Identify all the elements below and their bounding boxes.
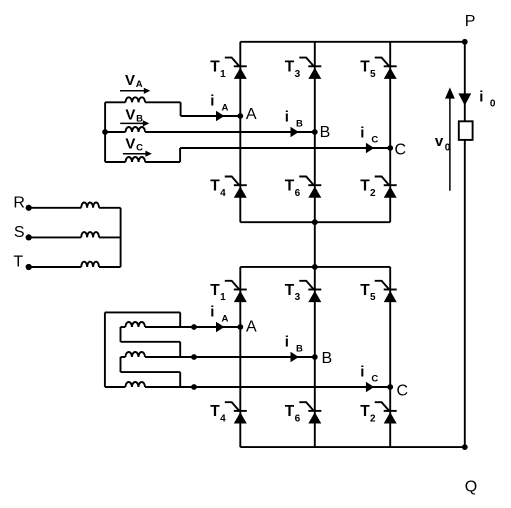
winding T (primary) — [29, 262, 121, 267]
svg-text:V: V — [125, 72, 135, 89]
label i_C (lower bridge) — [360, 364, 378, 385]
label V_A with arrow — [120, 72, 150, 94]
wire: phase A line to lower bridge — [145, 326, 240, 328]
svg-text:3: 3 — [295, 292, 301, 303]
svg-text:T: T — [360, 178, 370, 195]
svg-text:C: C — [371, 135, 378, 146]
svg-text:0: 0 — [490, 98, 496, 109]
svg-text:A: A — [246, 318, 257, 335]
svg-text:T: T — [210, 59, 220, 76]
label i_B (top bridge) — [285, 109, 303, 130]
wire: lower bridge negative rail to node Q rail — [240, 446, 464, 448]
wire: lower bridge phase-C leg — [389, 267, 391, 447]
label T2 (lower) — [360, 403, 376, 424]
label i_B (lower bridge) — [285, 334, 303, 355]
thyristor T3 (lower bridge) — [299, 281, 321, 302]
svg-text:i: i — [210, 93, 214, 110]
svg-text:i: i — [360, 364, 364, 381]
winding 3 (delta, phase C) — [105, 382, 145, 387]
node A (lower bridge) junction dot — [237, 324, 243, 330]
current arrow i_C (lower bridge) — [366, 382, 374, 392]
svg-text:5: 5 — [370, 292, 376, 303]
winding S (primary) — [29, 232, 121, 237]
wire: delta link down to phase C winding — [179, 372, 181, 387]
svg-text:B: B — [322, 350, 333, 367]
thyristor T1 (top bridge) — [225, 58, 247, 79]
node A (top bridge) junction dot — [237, 113, 243, 119]
junction dot: top bridge negative rail / series link — [312, 219, 318, 225]
voltage arrow v_0 (up) — [445, 87, 455, 190]
current arrow i_C (top bridge) — [366, 143, 374, 153]
svg-text:P: P — [465, 13, 476, 30]
current arrow i_0 (down) — [458, 93, 471, 105]
node P junction dot — [462, 39, 468, 45]
svg-text:i: i — [210, 304, 214, 321]
label i_A (top bridge) — [210, 93, 228, 114]
wire: phase B line to top bridge — [145, 131, 315, 133]
svg-text:B: B — [320, 124, 331, 141]
wire: primary star point bus — [120, 208, 122, 267]
thyristor T3 (top bridge) — [299, 58, 321, 79]
svg-text:4: 4 — [220, 414, 226, 425]
svg-text:0: 0 — [445, 143, 451, 154]
svg-text:i: i — [285, 334, 289, 351]
wire: phase C line to top bridge — [180, 147, 390, 149]
label i_C (top bridge) — [360, 125, 378, 146]
wire: phase C line to lower bridge — [145, 386, 390, 388]
junction dot: negative rail at load rail — [462, 444, 468, 450]
terminal dot S — [26, 234, 32, 240]
svg-text:3: 3 — [295, 69, 301, 80]
svg-text:6: 6 — [295, 188, 301, 199]
svg-text:v: v — [435, 133, 444, 150]
svg-text:Q: Q — [465, 479, 477, 496]
svg-text:A: A — [246, 106, 257, 123]
label v_0 — [435, 133, 451, 154]
wye neutral junction dot — [102, 129, 108, 135]
svg-text:B: B — [296, 119, 303, 130]
label V_B with arrow — [120, 106, 149, 126]
svg-text:C: C — [395, 142, 407, 159]
svg-text:T: T — [210, 282, 220, 299]
svg-text:T: T — [360, 403, 370, 420]
label T5 — [360, 59, 376, 80]
svg-text:T: T — [285, 282, 295, 299]
svg-text:C: C — [371, 374, 378, 385]
junction dot on phase C (delta output) — [191, 384, 197, 390]
svg-text:C: C — [136, 143, 143, 154]
junction dot on phase A (delta output) — [191, 324, 197, 330]
wire: lower bridge positive rail — [240, 266, 390, 268]
thyristor T6 (lower bridge) — [299, 402, 321, 423]
wire: series link between bridges — [314, 222, 316, 267]
junction dot: lower bridge positive rail / series link — [312, 264, 318, 270]
svg-text:4: 4 — [220, 188, 226, 199]
svg-text:S: S — [14, 224, 25, 241]
svg-text:V: V — [125, 135, 135, 152]
thyristor T5 (lower bridge) — [375, 281, 397, 302]
label V_C with arrow — [123, 135, 152, 156]
thyristor T4 (lower bridge) — [225, 402, 247, 423]
current arrow i_A (lower bridge) — [216, 322, 224, 332]
svg-text:6: 6 — [295, 414, 301, 425]
wire: phase A line to top bridge — [181, 115, 241, 117]
svg-text:R: R — [13, 194, 25, 211]
svg-text:i: i — [285, 109, 289, 126]
svg-text:T: T — [360, 59, 370, 76]
wire: wye secondary neutral bus — [104, 102, 106, 162]
svg-text:1: 1 — [220, 69, 226, 80]
svg-text:T: T — [285, 403, 295, 420]
terminal dot T — [26, 264, 32, 270]
current arrow i_B (top bridge) — [291, 127, 299, 137]
wire: top bridge negative rail — [240, 221, 390, 223]
wire: winding 1 return run — [121, 341, 181, 343]
winding V_B (wye secondary) — [105, 127, 145, 132]
wire: top bridge phase-B leg — [314, 42, 316, 222]
svg-text:A: A — [136, 79, 143, 90]
label T6 (lower) — [285, 403, 301, 424]
wire: top bridge phase-A leg — [239, 42, 241, 222]
label T5 (lower) — [360, 282, 376, 303]
svg-text:A: A — [222, 314, 229, 325]
current arrow i_B (lower bridge) — [291, 352, 299, 362]
winding V_C (wye secondary) — [105, 157, 180, 162]
node B (top bridge) junction dot — [312, 129, 318, 135]
node C (top bridge) junction dot — [387, 145, 393, 151]
wire: top bridge positive rail to node P — [240, 41, 464, 43]
wire: phase B line to lower bridge — [145, 356, 315, 358]
label i_0 — [479, 88, 496, 109]
thyristor T5 (top bridge) — [375, 58, 397, 79]
svg-text:T: T — [210, 403, 220, 420]
junction dot on phase B (delta output) — [191, 354, 197, 360]
thyristor T2 (lower bridge) — [375, 402, 397, 423]
svg-text:2: 2 — [370, 414, 376, 425]
label T6 — [285, 178, 301, 199]
wire: delta link top-right down to phase A winding — [179, 312, 181, 327]
svg-text:2: 2 — [370, 188, 376, 199]
svg-text:T: T — [210, 178, 220, 195]
label T1 — [210, 59, 226, 80]
svg-text:T: T — [285, 178, 295, 195]
wire: delta outer top side — [105, 311, 180, 313]
wire: delta link down to phase B winding — [179, 342, 181, 357]
thyristor T2 (top bridge) — [375, 177, 397, 198]
label T4 — [210, 178, 226, 199]
winding V_A (wye secondary) — [105, 97, 181, 102]
wire: winding 2 left end down — [120, 357, 122, 372]
wire: winding 1 left end down — [120, 327, 122, 342]
svg-text:C: C — [397, 382, 409, 399]
label T3 — [285, 59, 301, 80]
node C (lower bridge) junction dot — [387, 384, 393, 390]
svg-text:T: T — [13, 254, 23, 271]
label i_A (lower bridge) — [210, 304, 228, 325]
svg-text:i: i — [360, 125, 364, 142]
node B (lower bridge) junction dot — [312, 354, 318, 360]
winding 1 (delta, phase A) — [121, 322, 145, 327]
wire: top bridge phase-C leg — [389, 42, 391, 222]
wire: lower bridge phase-A leg — [239, 267, 241, 447]
thyristor T4 (top bridge) — [225, 177, 247, 198]
svg-text:i: i — [479, 88, 483, 105]
svg-text:T: T — [360, 282, 370, 299]
svg-text:A: A — [222, 103, 229, 114]
wire: V_A output step down to phase A — [180, 102, 182, 116]
wire: delta outer left side — [104, 312, 106, 387]
resistor load — [459, 121, 473, 140]
current arrow i_A (top bridge) — [216, 111, 224, 121]
label T3 (lower) — [285, 282, 301, 303]
thyristor T1 (lower bridge) — [225, 281, 247, 302]
thyristor T6 (top bridge) — [299, 177, 321, 198]
wire: lower bridge phase-B leg — [314, 267, 316, 447]
terminal dot R — [26, 205, 32, 211]
svg-text:V: V — [125, 106, 135, 123]
svg-text:5: 5 — [370, 69, 376, 80]
label T2 — [360, 178, 376, 199]
wire: V_C output step up to phase C — [179, 148, 181, 162]
wire: load rail P to Q — [464, 42, 466, 447]
winding R (primary) — [29, 202, 121, 207]
svg-text:T: T — [285, 59, 295, 76]
winding 2 (delta, phase B) — [121, 352, 145, 357]
svg-text:B: B — [296, 344, 303, 355]
svg-text:1: 1 — [220, 292, 226, 303]
label T4 (lower) — [210, 403, 226, 424]
wire: winding 2 return run — [121, 371, 181, 373]
label T1 (lower) — [210, 282, 226, 303]
